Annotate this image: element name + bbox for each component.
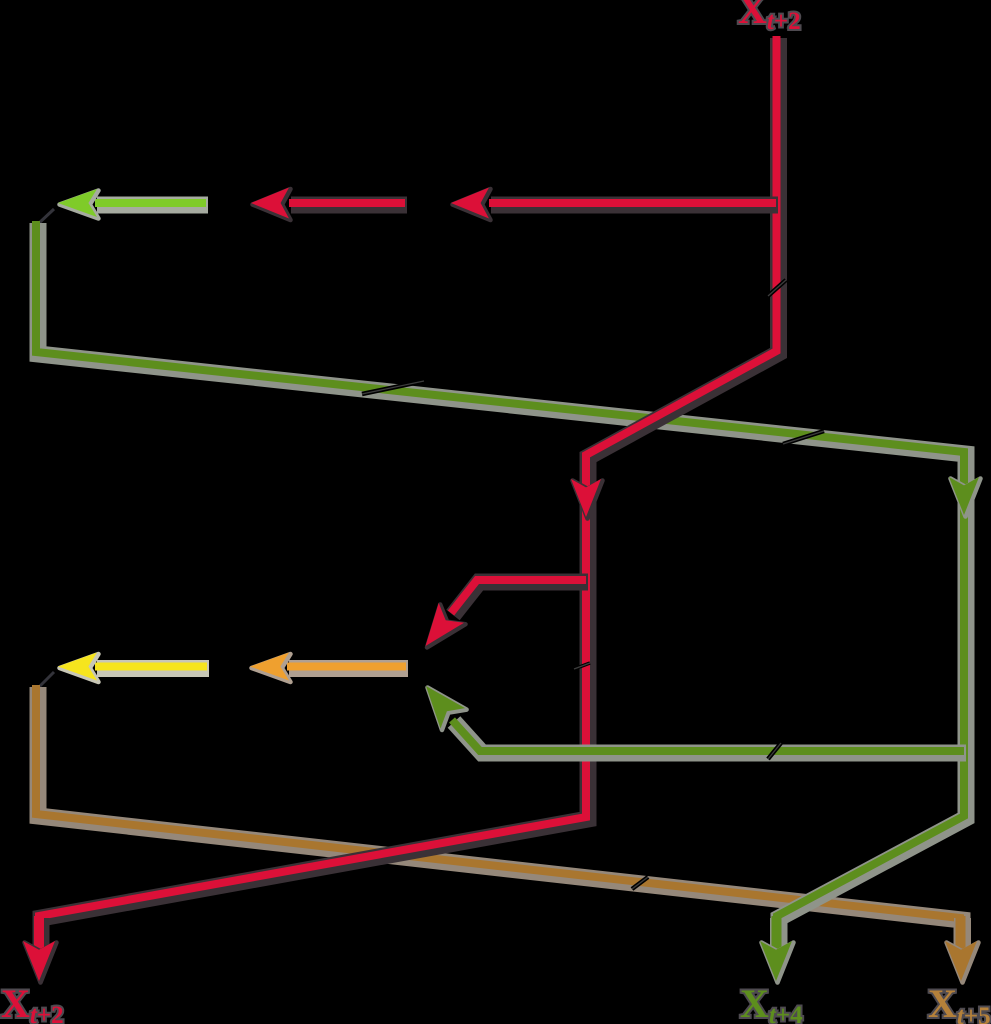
tick on green diagonal (left) bbox=[362, 381, 424, 394]
wire red thick drop segment bbox=[39, 916, 41, 952]
arrowhead orange left bbox=[250, 653, 291, 683]
wire orange arrow shaft (lower row) bbox=[287, 667, 408, 669]
faint connector streak from light-green arrow tip to dark-green vertical bbox=[38, 209, 54, 224]
tick on green diagonal (right) bbox=[783, 431, 824, 444]
arrowhead light-green left bbox=[58, 189, 99, 219]
faint connector streak from yellow arrow tip to brown vertical bbox=[38, 672, 54, 688]
node label X_t+5 (bottom-right output) bbox=[928, 981, 991, 1024]
arrowhead dark-green up-left at junction bbox=[426, 686, 467, 730]
wire yellow arrow shaft (lower row) bbox=[95, 667, 209, 669]
arrowhead red left (detached) bbox=[251, 188, 291, 221]
arrowhead dark-green down to Xt+4 bbox=[760, 941, 794, 983]
arrowhead dark-green down mid-line bbox=[949, 477, 981, 517]
tick on red mid vertical bbox=[574, 663, 590, 669]
svg-text:Xt+5: Xt+5 bbox=[928, 981, 991, 1024]
svg-text:Xt+4: Xt+4 bbox=[740, 981, 803, 1024]
wire red mid branch toward junction bbox=[451, 580, 588, 615]
node label X_t+2 (top input) bbox=[738, 0, 801, 35]
node label X_t+4 (bottom output) bbox=[740, 981, 803, 1024]
wire light-green arrow shaft (top row) bbox=[95, 203, 208, 205]
arrowhead red down to Xt+2 bbox=[23, 941, 57, 983]
wire red detached arrow shaft (top row) bbox=[289, 203, 407, 205]
arrowhead red left (branch) bbox=[451, 188, 491, 221]
wire dark-green horizontal branch toward junction bbox=[452, 720, 966, 753]
wire red upper-left branch bbox=[489, 203, 778, 205]
svg-text:Xt+2: Xt+2 bbox=[1, 981, 64, 1024]
arrowhead brown down to Xt+5 bbox=[945, 941, 979, 983]
wire red main path Xt+2: top vertical, diagonal, mid vertical, bottom diagonal, drop bbox=[39, 36, 779, 952]
arrowhead red down-left at junction bbox=[426, 603, 466, 648]
tick on brown diagonal bbox=[632, 877, 648, 889]
arrowhead yellow left bbox=[58, 653, 99, 683]
wire dark-green path to Xt+4: left vertical, long diagonal, right vertical, lower diagonal, drop bbox=[36, 221, 966, 952]
tick on red top vertical bbox=[768, 280, 786, 296]
wire brown path to Xt+5: left vertical, long diagonal, right drop bbox=[36, 685, 962, 952]
svg-text:Xt+2: Xt+2 bbox=[738, 0, 801, 35]
wire brown thick drop segment bbox=[961, 916, 963, 952]
arrowhead red down mid-line bbox=[571, 479, 603, 519]
node label X_t+2 (bottom-left output) bbox=[1, 981, 64, 1024]
tick on green horizontal branch bbox=[768, 743, 781, 759]
wire dark-green thick drop segment bbox=[777, 916, 779, 952]
